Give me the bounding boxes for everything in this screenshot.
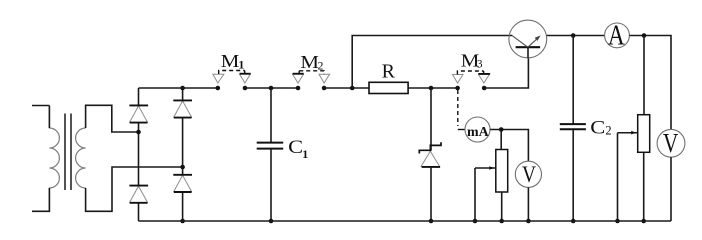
voltmeter V2 (right)	[657, 127, 685, 158]
wire transistor to A meter and right corner	[547, 35, 605, 37]
transformer T1 secondary winding	[76, 128, 86, 188]
switch M2	[293, 71, 330, 90]
svg-text:C: C	[590, 119, 605, 139]
node load resistor top	[642, 33, 647, 38]
node bridge top	[180, 86, 185, 91]
potentiometer RP1 wiper arrow	[475, 166, 496, 221]
capacitor C2	[560, 36, 586, 222]
wire M1 to M2 through C1 node	[245, 87, 298, 89]
wire mA to V riser	[490, 130, 528, 162]
wire A meter to right corner	[629, 36, 671, 130]
svg-text:M: M	[300, 52, 319, 72]
svg-text:3: 3	[477, 59, 483, 71]
node bridge left mid	[136, 130, 141, 135]
diode VD4 bottom-right	[173, 175, 192, 192]
zener diode VD5	[419, 88, 441, 221]
node zener top	[429, 86, 434, 91]
node bridge bottom	[180, 219, 185, 224]
switch M1	[213, 71, 251, 91]
diode VD2 top-right	[173, 100, 192, 117]
dashed link M3 to mA meter	[457, 90, 459, 126]
diode VD3 bottom-left	[129, 186, 148, 203]
voltmeter V1 (lower)	[515, 161, 541, 187]
svg-text:1: 1	[238, 57, 244, 71]
wire R to M3	[408, 87, 458, 89]
switch M3	[453, 71, 491, 90]
resistor R	[369, 82, 408, 93]
node C2 top	[571, 33, 576, 38]
wire V1 bottom	[527, 187, 529, 221]
wire top rail bridge to M1	[139, 87, 218, 89]
node RP2 bottom	[641, 219, 646, 224]
svg-text:2: 2	[605, 124, 611, 138]
svg-text:A: A	[608, 21, 625, 52]
node V1 bottom	[526, 219, 531, 224]
load potentiometer RP2	[638, 36, 650, 222]
svg-text:M: M	[221, 51, 240, 71]
wire secondary top to bridge left mid node	[86, 105, 139, 132]
node C1 top	[269, 86, 274, 91]
bridge left branch wire	[138, 88, 140, 221]
node RP2 wiper bottom	[615, 219, 620, 224]
node M2-collector riser	[350, 86, 355, 91]
wire V2 bottom to rail corner	[670, 157, 672, 221]
node wiper bottom	[473, 219, 478, 224]
svg-text:C: C	[288, 137, 303, 158]
bottom rail	[139, 220, 672, 222]
svg-text:1: 1	[302, 147, 308, 161]
node C1 bottom	[269, 219, 274, 224]
node pot bottom	[499, 219, 504, 224]
wire node to potentiometer	[500, 130, 502, 150]
wire riser to top rail	[352, 36, 512, 89]
svg-text:V: V	[522, 162, 536, 187]
wire secondary bottom to bridge right mid node	[86, 167, 183, 211]
ammeter A	[605, 21, 630, 52]
svg-text:2: 2	[318, 59, 324, 73]
node zener bottom	[429, 219, 434, 224]
wire M2 to R and node	[324, 87, 369, 89]
node bridge right mid	[180, 165, 185, 170]
milliammeter mA	[465, 117, 490, 142]
bridge right branch wire	[182, 88, 184, 221]
wire M3 right to transistor base	[484, 58, 528, 88]
node C2 bottom	[571, 219, 576, 224]
transformer T1 primary terminal bottom	[32, 188, 49, 211]
svg-text:V: V	[663, 127, 679, 158]
capacitor C1	[257, 88, 284, 221]
svg-text:R: R	[382, 60, 396, 82]
transistor VT1	[509, 20, 547, 58]
transformer core	[65, 114, 71, 191]
wire pot bottom	[501, 192, 503, 221]
node pot top	[499, 127, 504, 132]
transformer T1 primary terminal top	[32, 105, 49, 107]
diode VD1 top-left	[129, 105, 148, 122]
svg-text:mA: mA	[467, 124, 489, 139]
potentiometer RP1	[496, 150, 508, 193]
potentiometer RP2 wiper arrow	[618, 131, 638, 221]
transformer T1 primary winding	[49, 106, 59, 212]
